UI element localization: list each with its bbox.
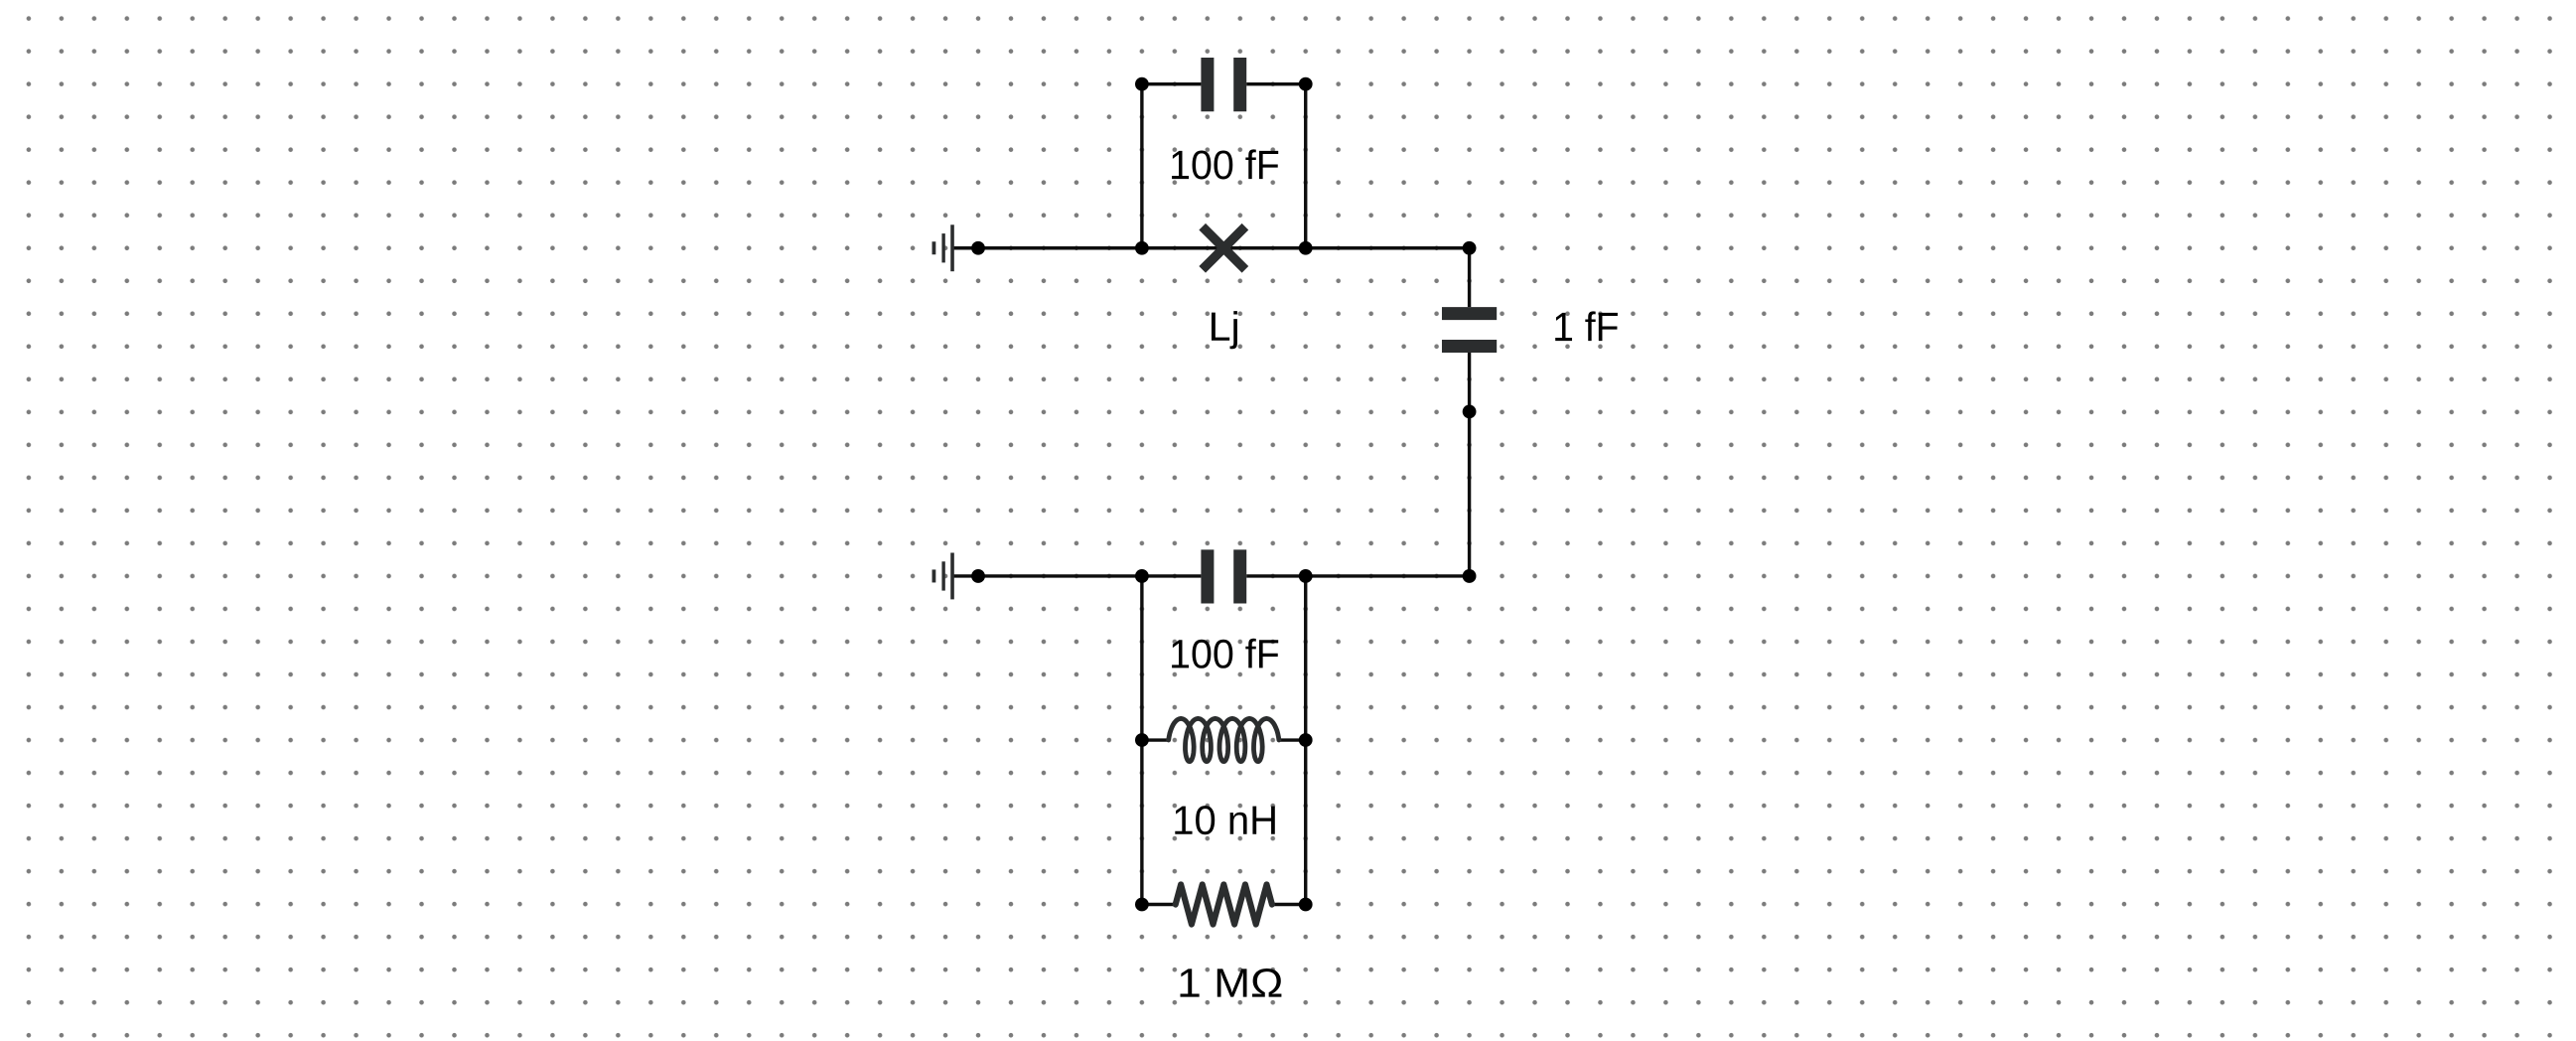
capacitor C1 100 fF (top): [1142, 58, 1306, 111]
label L1 value 10 nH: [1175, 806, 1275, 834]
node C (left of C3): [1135, 569, 1149, 583]
label C2 value 1 fF: [1555, 311, 1618, 341]
node A (left of JJ1): [1135, 241, 1149, 255]
node at ground bottom: [971, 569, 985, 583]
ground GND1 (top left): [933, 224, 978, 271]
wire bottom row: ground to node C: [978, 574, 1142, 577]
label C1 value 100 fF: [1172, 149, 1278, 179]
capacitor C3 100 fF (bottom): [1142, 549, 1306, 603]
label JJ1 value Lj: [1212, 311, 1237, 349]
ground GND2 (bottom left): [933, 552, 978, 599]
node below C2: [1463, 405, 1477, 419]
label R1 value 1 MOhm: [1181, 968, 1282, 997]
inductor L1 10 nH: [1142, 718, 1306, 761]
node right of L1: [1299, 733, 1313, 747]
node B (right of JJ1): [1299, 241, 1313, 255]
node left of R1: [1135, 898, 1149, 912]
resistor R1 1 MOhm: [1142, 885, 1306, 925]
node D (right of C3): [1299, 569, 1313, 583]
node corner top-right: [1463, 241, 1477, 255]
josephson junction JJ1 (Lj): [1142, 226, 1306, 269]
wire top row: node B to right corner: [1306, 246, 1470, 249]
capacitor C2 1 fF (right, vertical): [1442, 248, 1497, 412]
wire bottom right: corner to node D: [1306, 574, 1470, 577]
node at ground top: [971, 241, 985, 255]
wire vertical right branch (C2 down to corner): [1468, 411, 1471, 576]
wire vertical left (node A up to C1): [1140, 84, 1143, 248]
node corner bottom-right: [1463, 569, 1477, 583]
node left of L1: [1135, 733, 1149, 747]
wire vertical left rail (node C down to resistor row): [1140, 576, 1143, 905]
wire top row: ground to node A: [978, 246, 1142, 249]
node right of R1: [1299, 898, 1313, 912]
wire vertical right (node B up to C1): [1304, 84, 1307, 248]
label C3 value 100 fF: [1172, 639, 1278, 669]
node top-right of C1: [1299, 77, 1313, 91]
wire vertical right rail (node D down to resistor row): [1304, 576, 1307, 905]
node A top-left of C1: [1135, 77, 1149, 91]
